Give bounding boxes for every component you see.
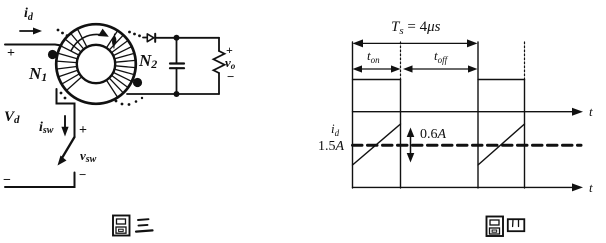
junction dot top [174,35,180,41]
label V_d [4,109,20,126]
label T_s = 4us [391,19,441,37]
boundary line x=352 [352,42,354,188]
capacitor C plates [170,64,184,69]
label minus bottom left [3,173,11,188]
svg-text:Vd: Vd [4,109,20,126]
average current dashed line [353,144,582,147]
label minus vo [227,69,234,84]
label phi [112,34,116,48]
svg-text:ton: ton [367,48,380,65]
i_d ramp 1 [353,124,401,165]
label v_o [225,55,236,71]
label t lower axis [589,180,593,195]
svg-text:N1: N1 [28,64,47,84]
wire N1 bottom step [57,89,75,137]
wire diode to output node [156,37,219,39]
svg-text:toff: toff [434,48,449,65]
svg-text:vsw: vsw [80,148,97,165]
svg-text:+: + [7,46,15,61]
dotted lead top left [57,29,69,37]
wire input top [5,45,62,46]
diode D1 [147,34,155,42]
wire node down to resistor [218,38,220,51]
dotted lead bottom left [60,92,67,100]
label t_off [434,48,449,65]
wire bottom rail right [127,93,219,95]
period arrow T_s [353,39,478,47]
resistor R load [214,51,225,73]
capacitor C wire top [176,38,178,64]
label plus v_sw [79,123,87,138]
label N1 [28,64,47,84]
svg-text:id: id [331,121,340,138]
switch bottom contact and bottom rail [5,173,75,188]
label t upper axis [589,104,593,119]
arrow i_sw [61,116,68,137]
N1 polarity dot [48,50,57,59]
wire to diode [143,37,147,39]
label minus v_sw [79,167,86,182]
upper time axis [353,108,584,116]
arrow t_off [403,65,478,72]
svg-text:id: id [24,6,34,23]
current arrow i_d [20,28,42,35]
junction dot bottom [174,91,180,97]
label 1.5A [318,139,345,154]
i_d ramp 2 [478,124,525,165]
boundary line x=400 solid [400,80,402,189]
dotted lead top right [128,31,141,38]
wire resistor to bottom [218,73,220,94]
lower time axis [353,183,584,191]
boundary line x=525 dashed top [524,42,526,80]
svg-text:−: − [227,69,234,84]
svg-text:+: + [79,123,87,138]
switch SW blade [58,137,75,166]
gate pulse 1 top [353,79,401,81]
transformer T1 toroid core [56,24,136,104]
N2 polarity dot [133,78,142,87]
caption figure 3 (圖三) [113,216,153,236]
label v_sw [80,148,97,165]
ripple arrow 0.6A [407,128,415,163]
svg-text:−: − [3,173,11,188]
dotted lead bottom right [115,97,144,106]
label i_sw [39,120,54,136]
svg-text:isw: isw [39,120,54,136]
svg-text:N2: N2 [138,51,157,71]
svg-text:−: − [79,167,86,182]
arrow t_on [353,65,401,72]
label i_d waveform [331,121,340,138]
label N2 [138,51,157,71]
label 0.6A [420,127,447,142]
boundary line x=400 dashed top [400,42,402,80]
label t_on [367,48,380,65]
label plus vo [226,43,233,57]
boundary line x=478 [477,42,479,188]
capacitor C wire bottom [176,68,178,94]
winding N1 radial lines [57,29,87,90]
flux direction arrow [71,29,109,51]
svg-text:t: t [589,180,593,195]
label i_d [24,6,34,23]
caption figure 4 (圖四) [487,217,525,237]
svg-text:Ts = 4μs: Ts = 4μs [391,19,441,37]
gate pulse 2 top [478,79,525,81]
svg-text:t: t [589,104,593,119]
boundary line x=525 solid [524,80,526,189]
svg-text:0.6A: 0.6A [420,127,447,142]
svg-text:1.5A: 1.5A [318,139,345,154]
plus terminal Vd [7,46,15,61]
winding N2 radial lines [107,31,136,97]
